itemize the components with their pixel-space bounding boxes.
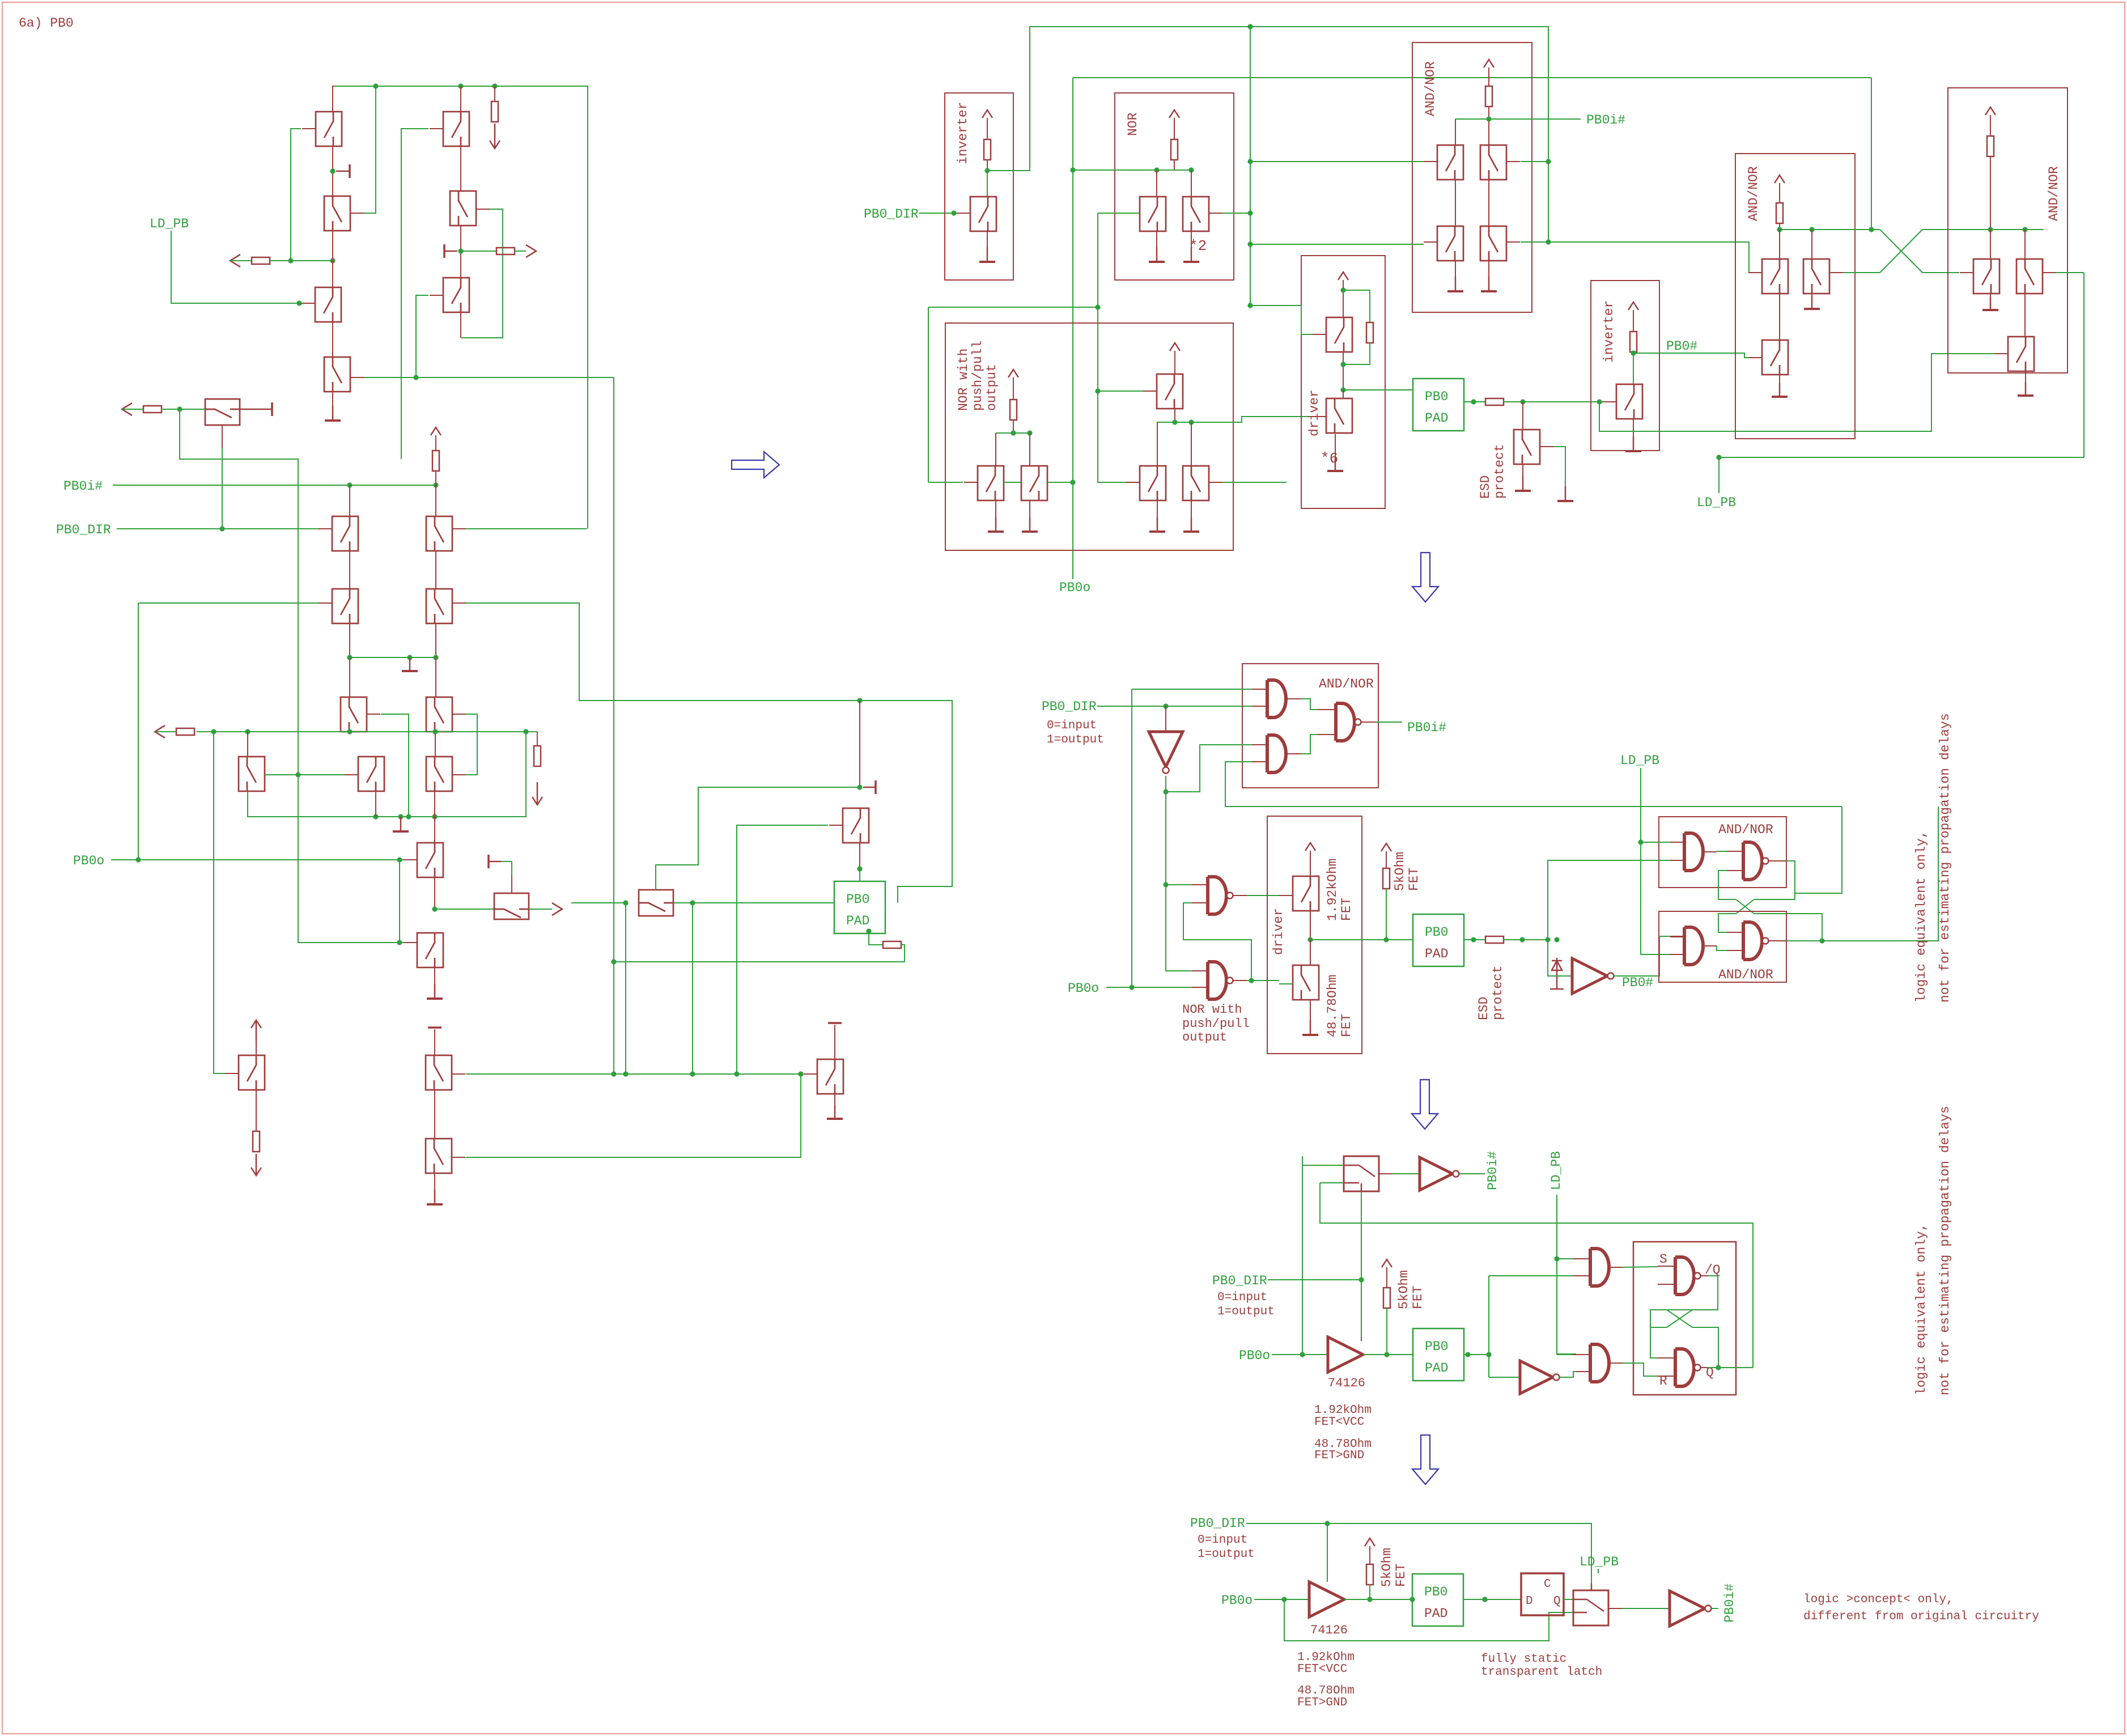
wire pad mid out: [1464, 939, 1485, 940]
wire G1 gate line: [466, 1073, 801, 1075]
wire F0 drain: [434, 817, 435, 843]
wire an3 down: [1990, 156, 1991, 230]
junction esd inv2: [1597, 399, 1602, 404]
junction pad bottom: [866, 928, 871, 933]
junction t1291-c: [347, 729, 352, 734]
junction diode: [1554, 937, 1559, 942]
svg-text:AND/NOR: AND/NOR: [1319, 677, 1374, 691]
junction buf 5k: [1384, 1352, 1389, 1357]
transistor H1: [426, 1139, 452, 1173]
resistor driver: [1366, 322, 1373, 343]
wire an3 res: [1990, 115, 1991, 136]
switch box bot: [1573, 1590, 1608, 1625]
svg-text:FET>GND: FET>GND: [1314, 1449, 1364, 1462]
wire pb0# to AND4: [1637, 936, 1670, 976]
wire D1-D2: [435, 551, 436, 589]
wire nand4 out: [1769, 940, 1786, 941]
wire plate-mux3gate: [656, 787, 860, 890]
blue arrow down 2: [1412, 1080, 1438, 1129]
transistor A4: [324, 357, 350, 392]
wire sw gate: [1361, 1191, 1362, 1280]
ground AN3-D: [1990, 294, 1991, 311]
svg-text:AND/NOR: AND/NOR: [2047, 166, 2061, 221]
wire X mid net1: [1718, 871, 1736, 899]
transistor PB: [817, 1059, 843, 1094]
wire an1 mids: [1455, 180, 1456, 226]
wire pb0o up: [1131, 981, 1132, 987]
wire nor fets: [1156, 170, 1157, 197]
junction pdir sw: [1358, 1277, 1364, 1282]
wire sw out: [1379, 1173, 1392, 1174]
junction drv res: [1340, 362, 1345, 367]
transistor NPP-M2R: [1183, 466, 1209, 500]
switch box sr: [1344, 1156, 1379, 1191]
wire M2R gate: [1222, 482, 1287, 483]
block NORPP rect: [945, 323, 1233, 550]
wire y1441 line: [248, 732, 526, 817]
vcc inverter: [982, 110, 992, 118]
wire PB0_DIR line: [117, 528, 319, 529]
svg-text:output: output: [1182, 1030, 1227, 1045]
junction an3 a: [1988, 227, 1993, 232]
svg-text:PB0: PB0: [1424, 1585, 1447, 1599]
buffer PB0i# sr: [1420, 1157, 1453, 1190]
junction D2net pad: [857, 698, 862, 703]
svg-text:fully static: fully static: [1481, 1653, 1566, 1666]
wire npp rail: [1013, 420, 1014, 433]
transistor NPP-L1: [978, 466, 1004, 500]
junction r2206 c: [1247, 303, 1253, 308]
resistor 5k bot: [1366, 1564, 1373, 1585]
transistor C4: [239, 757, 265, 791]
junction invd b: [1163, 882, 1168, 887]
transistor PT: [843, 808, 869, 843]
transistor AN2-A: [1762, 259, 1788, 294]
junction mux3 out: [690, 900, 695, 905]
junction mux3-G: [623, 1071, 628, 1076]
resistor E1: [253, 1131, 260, 1152]
gate NOR1 pp: [1166, 884, 1192, 885]
wire mux2 gate: [511, 875, 512, 893]
wire PB0o line: [111, 859, 404, 860]
inverter down: [1165, 706, 1166, 732]
junction padnet plate: [857, 784, 862, 790]
svg-text:push/pull: push/pull: [970, 341, 985, 411]
wire nand3 out: [1769, 860, 1786, 861]
junction pdir inv: [1163, 703, 1168, 708]
wire vcc fet1: [1310, 851, 1311, 876]
junction PT gate-G: [734, 1071, 739, 1076]
pad box mid: [1413, 914, 1464, 966]
wire an1 rail: [1488, 107, 1489, 119]
buffer 74126 bot: [1309, 1582, 1344, 1617]
junction padsr1: [1465, 1352, 1470, 1357]
svg-text:1=output: 1=output: [1198, 1548, 1255, 1561]
wire M1 gate: [1098, 391, 1143, 392]
junction pb0o fb: [1281, 1597, 1287, 1602]
wire term to A2: [270, 260, 333, 261]
wire esd drain: [1522, 402, 1523, 430]
wire mux3out down: [692, 903, 693, 1074]
transistor AN1-A: [1437, 145, 1463, 180]
svg-text:PB0i#: PB0i#: [1586, 113, 1625, 128]
transistor G1: [426, 1055, 452, 1090]
ground NOR-L: [1156, 231, 1157, 262]
svg-text:48.78Ohm: 48.78Ohm: [1297, 1684, 1355, 1697]
junction PB0o-F: [397, 857, 402, 862]
wire drv res down: [1343, 343, 1370, 364]
wire C1-C2: [349, 551, 350, 589]
resistor npp: [1010, 400, 1017, 420]
junction F mid: [432, 906, 437, 911]
vcc an3: [1985, 107, 1996, 115]
junction G-bus: [611, 1071, 616, 1076]
wire D3 gate: [466, 714, 477, 775]
junction an2 res: [1777, 227, 1782, 232]
junction nor rail2v: [1070, 167, 1075, 172]
svg-text:inverter: inverter: [956, 102, 970, 164]
wire mux gate riser: [222, 425, 223, 448]
gate plate G1 top: [428, 1026, 441, 1029]
vcc 5k sr: [1382, 1259, 1392, 1267]
wire B3 source: [460, 313, 461, 338]
wire mux3 input: [571, 902, 626, 903]
wire A1-A2 link: [332, 146, 333, 196]
wire rail2 PB0o: [1073, 77, 1871, 78]
junction an1 out: [1486, 116, 1491, 121]
wire PB0# line: [1633, 353, 1759, 358]
wire buf out bot: [1344, 1599, 1412, 1600]
wire inv sr in: [1489, 1377, 1520, 1378]
wire A1 drain riser: [333, 86, 334, 112]
wire and3-nand3: [1703, 851, 1717, 852]
ground M2L: [1157, 501, 1158, 532]
gate plate mux2: [489, 855, 501, 868]
transistor ESD: [1514, 430, 1540, 464]
svg-text:1=output: 1=output: [1047, 733, 1104, 746]
transistor D2: [426, 589, 452, 623]
junction PB0i#-C1: [347, 482, 352, 487]
svg-text:PB0: PB0: [1425, 925, 1448, 940]
vcc npp left: [1008, 370, 1018, 377]
mux FET 2: [494, 893, 529, 919]
junction 5k: [1383, 937, 1389, 942]
transistor A1: [316, 112, 342, 146]
junction nor2 out: [1249, 978, 1254, 983]
arrow down res: [490, 124, 500, 148]
junction LD_PB: [296, 300, 302, 305]
svg-text:driver: driver: [1271, 908, 1286, 955]
svg-text:Q: Q: [1553, 1595, 1561, 1608]
blue arrow down 1: [1412, 553, 1438, 602]
svg-text:AND/NOR: AND/NOR: [1746, 166, 1761, 221]
wire mux3 out: [673, 902, 834, 903]
wire riser 2206: [1250, 27, 1251, 305]
inverter bot: [1670, 1591, 1705, 1626]
svg-text:push/pull: push/pull: [1182, 1017, 1250, 1031]
junction nor R: [1188, 167, 1194, 172]
wire NOR1 out: [1233, 895, 1247, 896]
junction mux3 in: [623, 900, 628, 905]
wire D1 gate to rail: [466, 528, 587, 529]
svg-text:FET>GND: FET>GND: [1297, 1696, 1347, 1709]
gate plate mux: [240, 402, 272, 416]
wire vccres npp: [1013, 377, 1014, 400]
wire res col low: [537, 732, 538, 746]
transistor AN3-E: [2016, 259, 2043, 294]
wire PB0o mid line: [1106, 987, 1192, 988]
wire pad bot out: [1463, 1599, 1521, 1600]
ground esd fet: [1522, 464, 1523, 476]
wire ldpb sr: [1557, 1195, 1576, 1354]
wire nor rail: [1174, 160, 1175, 170]
wire A2 gate: [364, 86, 376, 213]
block inverter2 rect: [1591, 281, 1659, 451]
wire q up x: [1718, 1327, 1718, 1368]
svg-text:FET: FET: [1411, 1286, 1425, 1309]
transistor B3: [443, 278, 469, 312]
vcc E1: [251, 1020, 261, 1041]
svg-text:48.78Ohm: 48.78Ohm: [1325, 975, 1340, 1037]
wire M2 risers: [1157, 422, 1158, 466]
wire M1 out rail: [1174, 409, 1175, 422]
svg-text:PB0_DIR: PB0_DIR: [1190, 1516, 1245, 1531]
wire cross X1: [1871, 229, 1880, 230]
vcc NOR: [1169, 110, 1179, 118]
wire net1 cont: [1754, 913, 1822, 914]
junction AN1D rail1: [1546, 239, 1551, 244]
terminal arrow left y1291: [155, 725, 165, 738]
wire vcc res inv: [987, 118, 988, 139]
wire vcc res nor: [1174, 118, 1175, 139]
wire and5 b: [1489, 1275, 1573, 1276]
wire nand4 fb up: [1822, 914, 1823, 941]
wire A1 gate riser: [291, 129, 301, 261]
wire res-fet inv: [987, 160, 988, 171]
transistor NOR-L: [1140, 197, 1166, 231]
wire G1-H1: [434, 1090, 435, 1139]
transistor AN1-B: [1480, 145, 1506, 180]
transistor D1: [426, 516, 452, 551]
pad box left PB0 PAD: [834, 881, 885, 933]
svg-text:PAD: PAD: [1425, 411, 1448, 426]
transistor AN1-D: [1480, 226, 1506, 261]
svg-text:NOR: NOR: [1126, 112, 1140, 136]
junction pb0o-and1: [1129, 984, 1134, 990]
svg-text:PB0: PB0: [1425, 389, 1448, 404]
svg-text:5kOhm: 5kOhm: [1392, 852, 1407, 891]
wire pad sr out: [1464, 1354, 1489, 1355]
transistor C1: [332, 516, 358, 551]
wire drv res loop: [1343, 290, 1370, 322]
resistor esd right: [1485, 398, 1504, 405]
junction y1441-cg: [406, 814, 411, 819]
transistor AN2-B: [1803, 259, 1829, 294]
junction M1 out: [1172, 419, 1177, 425]
block SR rect: [1633, 1242, 1736, 1395]
wire H1 gate: [466, 1074, 801, 1157]
resistor esd left: [883, 941, 901, 948]
svg-text:0=input: 0=input: [1217, 1291, 1267, 1304]
junction esd fet: [1520, 399, 1525, 404]
wire an2 a down: [1779, 294, 1780, 340]
ground esd gate: [1557, 486, 1573, 501]
svg-text:PB0i#: PB0i#: [1485, 1151, 1500, 1190]
wire X2 rail: [1922, 229, 2044, 230]
wire pdir bot: [1246, 1523, 1591, 1590]
wire C4 drain: [247, 732, 248, 757]
wire res col: [494, 86, 495, 101]
wire 5k down: [1386, 889, 1387, 940]
wire vcc-res: [435, 435, 436, 451]
wire esd line: [1504, 401, 1603, 402]
wire M4 down: [375, 791, 376, 817]
svg-text:PB0o: PB0o: [1239, 1348, 1270, 1363]
wire PB0i# mid out: [1361, 721, 1376, 723]
wire term-mux: [163, 409, 205, 410]
wire VCC rail top-left: [334, 86, 588, 529]
svg-text:logic >concept< only,: logic >concept< only,: [1803, 1593, 1954, 1606]
svg-text:PAD: PAD: [1424, 1606, 1447, 1621]
wire B2-B3 link: [460, 226, 461, 278]
wire D2 gate net: [466, 603, 952, 903]
wire E-gate riser: [214, 732, 225, 1073]
junction norg mid: [1095, 388, 1100, 393]
gate plate A12: [336, 164, 350, 178]
wire sw-inv bot: [1608, 1608, 1622, 1609]
gate NAND3: [1727, 851, 1743, 852]
wire vcc-E1: [256, 1041, 257, 1055]
junction inv2 out: [1631, 350, 1636, 355]
junction pad bot o: [1482, 1597, 1487, 1602]
ground A4: [332, 392, 333, 421]
transistor 1.92k: [1293, 876, 1319, 911]
wire latch-sw: [1564, 1599, 1573, 1600]
transistor D3: [426, 697, 452, 732]
svg-text:inverter: inverter: [1602, 300, 1616, 363]
ground AN2-C: [1779, 375, 1780, 397]
svg-text:FET<VCC: FET<VCC: [1297, 1663, 1347, 1676]
transistor A2: [324, 196, 350, 231]
svg-text:driver: driver: [1307, 389, 1322, 436]
transistor F0: [417, 843, 443, 877]
svg-text:PAD: PAD: [846, 914, 869, 928]
ground PB: [834, 1094, 835, 1119]
junction A1A2 plate: [330, 168, 335, 173]
wire invd out: [1166, 776, 1192, 971]
ground AN1-C: [1455, 261, 1456, 291]
svg-text:PB0i#: PB0i#: [63, 479, 103, 494]
wire and3 a: [1641, 842, 1670, 843]
wire pb0# out: [1613, 975, 1637, 977]
wire and4 a stub: [1670, 936, 1684, 937]
svg-text:ESD: ESD: [1476, 997, 1491, 1020]
mux FET top-left: [205, 399, 240, 425]
ground inv: [987, 231, 988, 262]
ground NOR-R: [1191, 231, 1192, 262]
svg-text:output: output: [984, 364, 999, 411]
junction PB0o-bus: [135, 857, 141, 862]
gate NORg mid: [1318, 709, 1336, 710]
wire and5 a: [1557, 1258, 1573, 1259]
arrow down low: [532, 782, 542, 805]
transistor inv: [970, 197, 996, 231]
transistor 48.78: [1293, 965, 1319, 1000]
vcc 5k bot: [1365, 1538, 1375, 1546]
wire nor rail ext: [1073, 169, 1157, 171]
junction r2206 b: [1247, 241, 1253, 247]
svg-text:LD_PB: LD_PB: [1580, 1555, 1619, 1569]
wire and6-nandr: [1609, 1363, 1623, 1364]
wire B3 gate: [416, 295, 428, 377]
svg-text:PB0_DIR: PB0_DIR: [864, 207, 919, 222]
svg-text:NOR with: NOR with: [1182, 1003, 1242, 1017]
wire npp out to driver: [1191, 417, 1313, 422]
transistor B1: [443, 112, 469, 146]
wire B2 gate: [461, 209, 503, 338]
transistor DRV-P: [1326, 317, 1352, 352]
wire pad esd: [869, 931, 883, 945]
junction an2 out: [1869, 227, 1874, 232]
svg-text:PB0#: PB0#: [1666, 339, 1697, 354]
junction A1-gate term: [288, 258, 293, 263]
wire drvout line: [1310, 939, 1413, 940]
ground fet2: [1310, 1000, 1311, 1035]
wire join row: [350, 657, 436, 658]
resistor an1: [1485, 86, 1492, 107]
svg-text:PB0_DIR: PB0_DIR: [56, 523, 111, 537]
wire ldpb mid riser: [1641, 768, 1670, 954]
wire inv out bot: [1712, 1608, 1718, 1609]
svg-text:PB0_DIR: PB0_DIR: [1042, 699, 1097, 714]
wire A4 gate bus: [364, 377, 614, 378]
junction rail1 riser: [1247, 24, 1253, 29]
wire fet2 top: [1310, 940, 1311, 965]
svg-text:PB0o: PB0o: [1221, 1593, 1253, 1608]
ground y1441: [393, 817, 409, 831]
junction t1291-b: [245, 729, 250, 734]
wire buf out: [1363, 1354, 1413, 1355]
wire PB0i# line: [113, 485, 436, 486]
junction row C: [347, 655, 352, 660]
wire AN1A gate: [1250, 161, 1424, 162]
transistor F1: [417, 933, 443, 967]
junction drv out: [1340, 387, 1345, 392]
wire pad riser: [1488, 1276, 1489, 1377]
junction an2 b: [1809, 227, 1814, 232]
junction drv vcc: [1340, 287, 1345, 292]
wire NORR gate: [1222, 213, 1250, 214]
wire nandr in x: [1650, 1310, 1667, 1358]
pad box sr: [1413, 1328, 1464, 1381]
block driver rect: [1301, 256, 1385, 508]
vcc an1: [1484, 60, 1494, 67]
svg-text:PB0o: PB0o: [73, 854, 104, 868]
gate NAND4: [1727, 932, 1743, 933]
resistor pullup right: [491, 101, 498, 122]
junction row D: [433, 655, 438, 660]
wire PB0o-F1 riser: [399, 860, 400, 943]
resistor an3: [1987, 136, 1994, 156]
junction PB gate: [798, 1071, 803, 1076]
junction A4 gate: [413, 375, 418, 380]
transistor E1: [239, 1055, 265, 1090]
svg-text:1=output: 1=output: [1217, 1305, 1275, 1318]
svg-text:74126: 74126: [1310, 1623, 1348, 1637]
gate plate PB top: [828, 1022, 842, 1024]
wire 5k sr: [1386, 1267, 1387, 1288]
wire an2 rail: [1779, 223, 1780, 230]
